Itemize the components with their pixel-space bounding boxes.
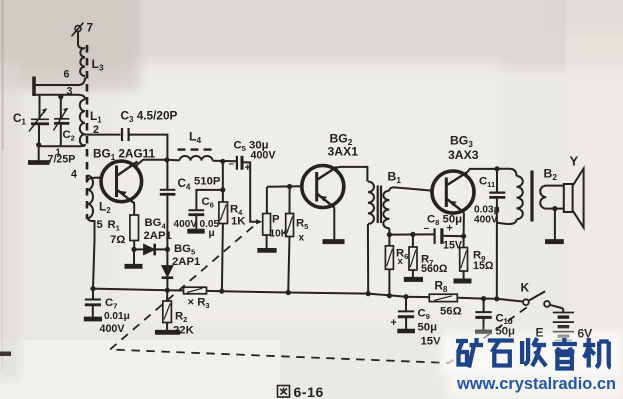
wire C5 to volume pot wiper	[242, 162, 257, 221]
wire BG1 emitter to R1	[133, 203, 135, 215]
transformer B1 secondary	[383, 191, 389, 229]
node C2 top	[58, 94, 63, 99]
svg-text:6-16: 6-16	[294, 384, 324, 399]
transformer B2 secondary	[540, 186, 564, 209]
svg-text:3AX3: 3AX3	[448, 148, 479, 162]
svg-text:1K: 1K	[231, 216, 246, 228]
node collector/C11/B2	[494, 166, 499, 171]
ground (C9)	[397, 329, 415, 334]
wire B1 primary bottom to rail	[367, 224, 369, 294]
node speaker return	[552, 206, 557, 211]
electrolytic C9	[398, 297, 414, 329]
wire C4 to BG5	[166, 195, 168, 266]
B2 core	[530, 171, 533, 222]
node rail/L2/C7	[90, 286, 95, 291]
svg-text:50μ: 50μ	[496, 326, 515, 338]
diode BG5	[162, 266, 174, 290]
transformer B2 primary	[497, 169, 523, 224]
transistor BG2	[302, 166, 344, 208]
svg-text:56Ω: 56Ω	[440, 306, 462, 318]
capacitor C11	[489, 169, 505, 223]
svg-text:15Ω: 15Ω	[473, 260, 494, 272]
node L4/C5/R4	[220, 159, 225, 164]
coil L3	[80, 48, 85, 76]
wire BG2 emitter to ground	[333, 208, 335, 240]
mechanical gang (dashed link P-K)	[110, 227, 528, 364]
ground (R9)	[454, 279, 472, 284]
trimmer capacitor C2	[54, 95, 70, 147]
transformer B1 primary	[368, 182, 374, 224]
resistor R4	[219, 161, 228, 291]
ferrite core (dashed) for L3/L1/L2	[86, 45, 89, 219]
svg-text:E: E	[536, 326, 544, 340]
svg-text:μ: μ	[209, 228, 215, 239]
svg-text:+: +	[391, 317, 397, 329]
node R4/C6 tap	[220, 187, 225, 192]
svg-text:15V: 15V	[443, 240, 463, 252]
capacitor C3	[122, 128, 129, 141]
node rail/BG5/R2	[165, 288, 170, 293]
electrolytic C5	[237, 156, 242, 170]
variable capacitor C1	[29, 95, 49, 145]
wire pin3 to C1/C2 tops	[34, 95, 85, 100]
svg-text:2AP1: 2AP1	[144, 230, 172, 242]
wire P top / R5 / BG2 base	[267, 185, 303, 188]
coil L4	[167, 156, 237, 161]
core of L4 (dashed)	[178, 148, 213, 150]
resistor R1	[130, 215, 139, 241]
wire to tank ground	[38, 145, 40, 161]
scan artifact left edge	[0, 352, 11, 357]
resistor R2	[163, 290, 172, 330]
resistor R3 (series in rail)	[184, 287, 207, 294]
node rail/R6	[387, 293, 392, 298]
wire node to ground	[133, 249, 135, 264]
ground (C7)	[84, 317, 102, 322]
resistor R9	[460, 236, 468, 279]
wire R1 to detector node	[133, 241, 135, 250]
node R1/BG4/ground	[131, 247, 136, 252]
antenna terminal (pin 7)	[72, 23, 84, 37]
ground (R2)	[155, 330, 180, 335]
wire C11/B2 bottom to rail	[496, 223, 498, 299]
wire to ground (B2 secondary)	[554, 209, 556, 240]
wire L2 bottom to rail	[88, 218, 95, 289]
coil L1	[80, 100, 85, 146]
ground (C10)	[475, 330, 492, 334]
svg-text:x: x	[398, 256, 404, 267]
svg-text:2: 2	[93, 124, 99, 136]
loudspeaker Y	[564, 169, 584, 228]
svg-text:6: 6	[64, 69, 70, 81]
node rail/C10	[481, 296, 486, 301]
svg-text:10K: 10K	[270, 229, 289, 240]
earth terminal bar	[32, 77, 36, 97]
node rail/C9	[403, 294, 408, 299]
svg-text:22K: 22K	[173, 325, 195, 337]
svg-text:400V: 400V	[174, 219, 198, 230]
node rail/B1	[366, 291, 371, 296]
node BG1 collector junction	[164, 157, 169, 162]
svg-text:+: +	[447, 223, 453, 235]
ground (emitter)	[125, 264, 143, 269]
svg-text:K: K	[521, 281, 530, 295]
svg-text:www.crystalradio.cn: www.crystalradio.cn	[456, 375, 616, 393]
svg-text:−: −	[229, 159, 235, 170]
wire collector node to BG1	[136, 160, 167, 166]
supply rail (bottom bus)	[93, 289, 523, 302]
caption tu (figure) glyph	[278, 386, 290, 398]
svg-text:Y: Y	[570, 154, 579, 169]
wire antenna to L3	[78, 32, 83, 49]
capacitor C7	[85, 289, 101, 317]
wire earth to L3 pin6	[34, 78, 85, 86]
svg-text:3: 3	[67, 86, 73, 98]
svg-text:7/25P: 7/25P	[48, 154, 76, 166]
coil L2	[88, 176, 94, 219]
svg-text:400V: 400V	[100, 323, 126, 335]
resistor R7	[409, 234, 417, 277]
transistor BG3	[432, 171, 474, 213]
svg-text:0.01μ: 0.01μ	[104, 311, 130, 322]
resistor R8 (series in rail)	[429, 294, 457, 301]
switch K	[523, 291, 563, 308]
ground (C6)	[187, 229, 204, 234]
svg-text:400V: 400V	[251, 150, 277, 162]
wire BG1 base to L2	[95, 177, 102, 179]
watermark text kuang-shi-shou-yin-ji	[456, 338, 611, 369]
wire B1 secondary top to BG3 base	[389, 187, 433, 190]
battery E 6V	[553, 309, 574, 341]
node base/R5	[287, 184, 292, 189]
ground (R7)	[404, 277, 423, 282]
wire BG3 emitter down	[463, 213, 465, 237]
svg-text:+: +	[245, 162, 251, 174]
resistor R6	[385, 235, 393, 296]
wire C3 to collector node	[129, 135, 168, 160]
electrolytic C10	[475, 299, 491, 330]
ground (P)	[257, 248, 276, 253]
svg-text:x: x	[299, 233, 305, 244]
svg-text:15V: 15V	[421, 336, 442, 348]
node emitter/C8/R9	[461, 234, 466, 239]
svg-text:7Ω: 7Ω	[110, 234, 125, 246]
svg-text:−: −	[424, 224, 430, 235]
svg-text:3AX1: 3AX1	[328, 145, 359, 159]
capacitor C6	[188, 190, 222, 229]
svg-text:4: 4	[71, 169, 77, 181]
node rail/R4	[219, 289, 224, 294]
wire BG3 collector to C11/B2	[466, 169, 497, 174]
ground (BG2 emitter)	[323, 239, 345, 244]
svg-text:5: 5	[97, 219, 103, 231]
transistor BG1	[101, 161, 142, 203]
node rail/R5	[286, 290, 291, 295]
wire L1 tap pin2 to C3	[85, 134, 121, 136]
svg-text:510P: 510P	[194, 176, 221, 188]
node rail/B2	[494, 296, 499, 301]
svg-text:P: P	[272, 214, 280, 226]
svg-text:7: 7	[87, 21, 94, 35]
electrolytic C8	[435, 228, 464, 244]
wire BG2 collector to B1	[336, 167, 367, 182]
svg-text:2AP1: 2AP1	[172, 256, 200, 268]
node BG4/detector line	[165, 247, 170, 252]
resistor R5	[286, 187, 294, 293]
svg-text:C8 50μ: C8 50μ	[427, 214, 462, 228]
svg-text:560Ω: 560Ω	[421, 263, 448, 275]
node bias junction	[387, 232, 392, 237]
B1 core	[378, 186, 381, 224]
capacitor C4	[160, 160, 176, 195]
svg-text:BG1 2AG11: BG1 2AG11	[93, 147, 156, 163]
node R7 top	[410, 232, 415, 237]
wire B1 secondary bottom to bias node	[388, 228, 390, 234]
wire L1 bottom (pin1) to C2/C1 bottoms	[39, 144, 86, 146]
potentiometer P (volume)	[263, 187, 271, 249]
diode BG4	[134, 244, 167, 256]
svg-text:50μ: 50μ	[418, 322, 438, 334]
ground (B2 secondary)	[545, 239, 564, 244]
svg-text:400V: 400V	[474, 215, 498, 226]
node C1 bottom junction	[36, 142, 41, 147]
scan edge mark	[2, 0, 4, 150]
watermark glow	[442, 333, 623, 375]
ground (tank)	[28, 160, 50, 165]
wire bias node to C8	[389, 233, 433, 235]
